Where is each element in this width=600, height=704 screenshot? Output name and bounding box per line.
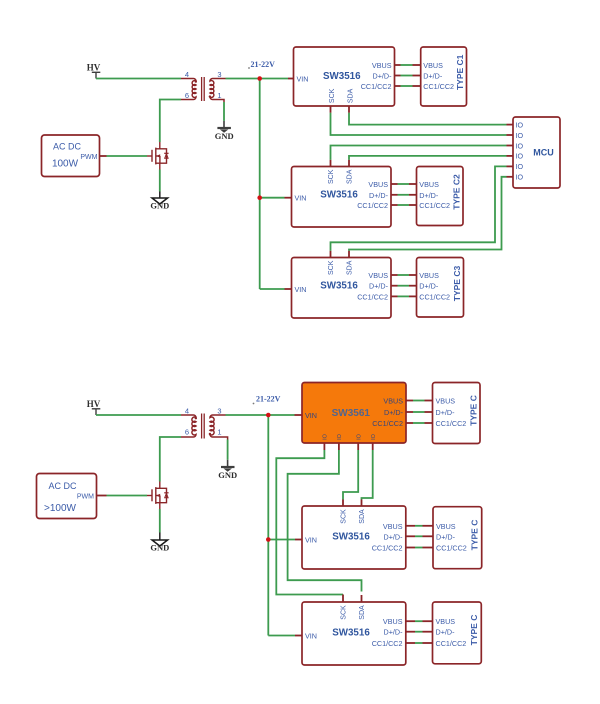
U6 CC1/CC2 pin stub — [406, 422, 413, 424]
IC U4 SW3516 body — [302, 506, 406, 569]
svg-text:IO: IO — [337, 433, 343, 440]
svg-text:HV: HV — [87, 63, 101, 73]
svg-text:D+/D-: D+/D- — [423, 72, 443, 81]
svg-text:SCK: SCK — [341, 509, 348, 524]
svg-text:21-22V: 21-22V — [256, 395, 281, 404]
svg-text:SCK: SCK — [329, 88, 336, 103]
svg-text:CC1/CC2: CC1/CC2 — [372, 419, 403, 428]
transistor Q2 NMOS — [147, 482, 169, 510]
svg-text:VBUS: VBUS — [368, 271, 388, 280]
svg-text:IO: IO — [516, 120, 524, 129]
svg-text:D+/D-: D+/D- — [419, 191, 439, 200]
ground GND below T1 (circuit 1) — [215, 121, 234, 141]
svg-text:D+/D-: D+/D- — [384, 408, 404, 417]
J5 CC1/CC2 pin stub — [423, 642, 433, 644]
svg-text:6: 6 — [185, 428, 189, 437]
svg-text:SW3516: SW3516 — [332, 532, 370, 543]
svg-text:VIN: VIN — [297, 74, 309, 83]
wire 21-22V vertical rail (circuit 1) — [259, 79, 261, 290]
wire T2 pin 1 to GND — [227, 440, 229, 460]
svg-text:VBUS: VBUS — [436, 617, 456, 626]
U2 SDA pin stub — [348, 160, 350, 167]
wire T1 pin 1 to GND — [223, 102, 225, 121]
wire U3 D+/D- to J3 — [398, 285, 410, 287]
ground GND below Q2 (circuit 2) — [150, 533, 169, 553]
U3 D+/D- pin stub — [391, 285, 398, 287]
ground GND below T2 (circuit 2) — [218, 460, 237, 480]
wire U4 VBUS to J4 — [415, 525, 423, 527]
U5 VIN pin stub — [295, 635, 302, 637]
svg-text:TYPE C: TYPE C — [470, 520, 480, 551]
wire U6 IO3 to U4 SCK — [343, 450, 358, 500]
svg-text:IO: IO — [516, 162, 524, 171]
IC U2 SW3516 body — [292, 167, 392, 228]
svg-text:SW3516: SW3516 — [332, 628, 370, 639]
U3 VBUS pin stub — [391, 274, 398, 276]
svg-text:SDA: SDA — [347, 169, 354, 184]
svg-text:VBUS: VBUS — [436, 397, 456, 406]
svg-text:SCK: SCK — [328, 169, 335, 184]
label anchor dot (circuit 2) — [253, 403, 255, 405]
junction on 21-22V rail at T2 output — [266, 413, 271, 418]
svg-text:21-22V: 21-22V — [251, 60, 276, 69]
svg-text:IO: IO — [516, 152, 524, 161]
wire U3 CC1/CC2 to J3 — [398, 295, 410, 297]
svg-text:3: 3 — [217, 70, 221, 79]
svg-text:TYPE C: TYPE C — [469, 395, 479, 426]
wire U6 IO4 to U4 SDA — [362, 450, 373, 500]
MCU IO1 pin stub — [507, 124, 514, 126]
svg-text:VBUS: VBUS — [368, 180, 388, 189]
U6 IO4 pin stub — [372, 443, 374, 450]
wire U6 D+/D- to J6 — [413, 411, 425, 413]
J1 D+/D- pin stub — [413, 75, 421, 77]
U4 VBUS pin stub — [406, 525, 415, 527]
wire U1 SDA to MCU IO1 — [349, 113, 507, 125]
wire U1 SCK to MCU IO2 — [331, 113, 507, 135]
junction on rail at U2 VIN — [257, 195, 262, 200]
wire U1 D+/D- to J1 — [401, 75, 413, 77]
connector J2 TYPE C2 body — [417, 167, 464, 226]
IC U5 SW3516 body — [302, 602, 406, 665]
svg-text:PWM: PWM — [80, 154, 97, 161]
svg-text:VIN: VIN — [295, 194, 307, 203]
ground GND below Q1 (circuit 1) — [150, 192, 169, 211]
wire T2 pin 6 to Q2 drain — [160, 437, 181, 482]
svg-text:VIN: VIN — [295, 285, 307, 294]
wire U6 IO1 to U5 SCK — [276, 450, 343, 595]
svg-text:D+/D-: D+/D- — [384, 628, 404, 637]
transformer T2 — [181, 414, 228, 440]
PS1 PWM pin stub — [100, 155, 107, 157]
svg-text:CC1/CC2: CC1/CC2 — [436, 419, 467, 428]
svg-text:CC1/CC2: CC1/CC2 — [436, 544, 467, 553]
svg-text:PWM: PWM — [77, 494, 94, 501]
wire T1 pin 6 to Q1 drain — [160, 100, 181, 143]
U1 VBUS pin stub — [395, 64, 401, 66]
wire U6 VBUS to J6 — [413, 400, 425, 402]
J2 VBUS pin stub — [409, 183, 417, 185]
wire HV to T1 pin 4 — [96, 78, 181, 80]
wire U5 D+/D- to J5 — [415, 631, 423, 633]
svg-text:D+/D-: D+/D- — [369, 282, 389, 291]
J2 CC1/CC2 pin stub — [409, 204, 417, 206]
svg-text:VBUS: VBUS — [419, 180, 439, 189]
wire U4 CC1/CC2 to J4 — [415, 547, 423, 549]
svg-text:D+/D-: D+/D- — [436, 628, 456, 637]
wire HV to T2 pin 4 — [96, 414, 181, 416]
J5 D+/D- pin stub — [423, 631, 433, 633]
J6 VBUS pin stub — [425, 400, 433, 402]
J6 D+/D- pin stub — [425, 411, 433, 413]
J6 CC1/CC2 pin stub — [425, 422, 433, 424]
wire U5 CC1/CC2 to J5 — [415, 642, 423, 644]
U2 VBUS pin stub — [391, 183, 398, 185]
svg-text:GND: GND — [218, 470, 237, 480]
svg-text:VBUS: VBUS — [383, 522, 403, 531]
svg-text:IO: IO — [323, 433, 329, 440]
U1 SCK pin stub — [330, 106, 332, 113]
power flag HV (circuit 1) — [92, 72, 101, 78]
wire U2 SCK to MCU IO3 — [331, 146, 507, 160]
svg-text:SDA: SDA — [359, 509, 366, 524]
power source PS2 AC DC >100W body — [37, 474, 97, 519]
wire U6 CC1/CC2 to J6 — [413, 422, 425, 424]
U6 IO1 pin stub — [323, 443, 325, 450]
label anchor dot (circuit 1) — [248, 67, 250, 69]
U3 CC1/CC2 pin stub — [391, 295, 398, 297]
power source PS1 AC DC 100W body — [42, 135, 100, 177]
svg-text:IO: IO — [516, 173, 524, 182]
wire Q2 source to GND — [159, 509, 161, 533]
U1 VIN pin stub — [288, 78, 294, 80]
svg-text:1: 1 — [217, 91, 221, 100]
svg-text:VBUS: VBUS — [383, 617, 403, 626]
wire U1 CC1/CC2 to J1 — [401, 85, 413, 87]
J4 VBUS pin stub — [423, 525, 434, 527]
svg-text:GND: GND — [150, 543, 169, 553]
svg-text:100W: 100W — [52, 158, 79, 169]
wire U3 SCK to MCU IO5 — [331, 166, 507, 250]
svg-text:4: 4 — [185, 70, 189, 79]
U3 VIN pin stub — [285, 288, 292, 290]
svg-text:D+/D-: D+/D- — [419, 282, 439, 291]
wire T2 pin 3 to U6 VIN — [226, 414, 295, 416]
J1 VBUS pin stub — [413, 64, 421, 66]
U6 IO3 pin stub — [357, 443, 359, 450]
svg-text:CC1/CC2: CC1/CC2 — [372, 544, 403, 553]
J3 D+/D- pin stub — [409, 285, 417, 287]
svg-text:TYPE C1: TYPE C1 — [455, 54, 465, 90]
wire U5 VBUS to J5 — [415, 620, 423, 622]
J3 VBUS pin stub — [409, 274, 417, 276]
U4 SCK pin stub — [342, 500, 344, 507]
power flag HV (circuit 2) — [92, 409, 101, 415]
U2 SCK pin stub — [330, 160, 332, 167]
U2 VIN pin stub — [285, 197, 292, 199]
U1 CC1/CC2 pin stub — [395, 85, 401, 87]
U6 IO2 pin stub — [338, 443, 340, 450]
svg-text:SW3516: SW3516 — [320, 281, 358, 292]
svg-text:D+/D-: D+/D- — [369, 191, 389, 200]
wire rail to U3 VIN — [260, 288, 285, 290]
J3 CC1/CC2 pin stub — [409, 295, 417, 297]
svg-text:4: 4 — [185, 407, 189, 416]
svg-text:SDA: SDA — [359, 605, 366, 620]
U5 CC1/CC2 pin stub — [406, 642, 415, 644]
svg-text:D+/D-: D+/D- — [373, 72, 393, 81]
svg-text:CC1/CC2: CC1/CC2 — [357, 201, 388, 210]
U4 VIN pin stub — [295, 539, 302, 541]
svg-text:VIN: VIN — [305, 411, 317, 420]
svg-text:SW3516: SW3516 — [320, 190, 358, 201]
connector J5 TYPE C body — [433, 602, 482, 664]
svg-text:SCK: SCK — [341, 605, 348, 620]
svg-text:IO: IO — [371, 433, 377, 440]
svg-text:AC DC: AC DC — [48, 481, 77, 491]
svg-text:D+/D-: D+/D- — [384, 532, 404, 541]
IC MCU body — [513, 117, 560, 188]
svg-text:CC1/CC2: CC1/CC2 — [419, 201, 450, 210]
U6 VBUS pin stub — [406, 400, 413, 402]
wire U2 CC1/CC2 to J2 — [398, 204, 410, 206]
U6 D+/D- pin stub — [406, 411, 413, 413]
wire U6 IO2 to U5 SDA — [288, 450, 362, 592]
svg-text:IO: IO — [356, 433, 362, 440]
PS2 PWM pin stub — [97, 495, 107, 497]
connector J1 TYPE C1 body — [421, 47, 467, 106]
svg-text:D+/D-: D+/D- — [436, 408, 456, 417]
svg-text:HV: HV — [87, 399, 101, 409]
U4 D+/D- pin stub — [406, 535, 415, 537]
svg-text:TYPE C: TYPE C — [469, 615, 479, 646]
U1 SDA pin stub — [348, 106, 350, 113]
IC U1 SW3516 body — [294, 47, 395, 106]
wire rail to U5 VIN — [268, 635, 295, 637]
svg-text:IO: IO — [516, 141, 524, 150]
wire U3 VBUS to J3 — [398, 274, 410, 276]
svg-text:1: 1 — [217, 428, 221, 437]
J1 CC1/CC2 pin stub — [413, 85, 421, 87]
J5 VBUS pin stub — [423, 620, 433, 622]
U4 CC1/CC2 pin stub — [406, 547, 415, 549]
wire 21-22V vertical rail (circuit 2) — [267, 415, 269, 636]
wire PWM to Q1 gate — [107, 155, 148, 157]
MCU IO4 pin stub — [507, 155, 514, 157]
J4 CC1/CC2 pin stub — [423, 547, 434, 549]
wire T1 pin 3 to U1 VIN — [226, 78, 289, 80]
svg-text:SW3561: SW3561 — [332, 408, 371, 419]
svg-text:MCU: MCU — [533, 148, 554, 158]
wire U2 D+/D- to J2 — [398, 194, 410, 196]
svg-text:GND: GND — [215, 131, 234, 141]
svg-text:AC DC: AC DC — [53, 141, 82, 151]
svg-text:VBUS: VBUS — [436, 522, 456, 531]
svg-text:SCK: SCK — [328, 260, 335, 275]
svg-text:>100W: >100W — [44, 503, 77, 514]
IC U3 SW3516 body — [292, 258, 392, 319]
svg-text:VIN: VIN — [305, 536, 317, 545]
svg-text:VBUS: VBUS — [383, 397, 403, 406]
svg-text:VIN: VIN — [305, 632, 317, 641]
connector J4 TYPE C body — [433, 507, 482, 569]
connector J6 TYPE C body — [433, 383, 481, 444]
wire U1 VBUS to J1 — [401, 64, 413, 66]
svg-text:6: 6 — [185, 91, 189, 100]
MCU IO6 pin stub — [507, 176, 514, 178]
wire Q1 source to GND — [159, 170, 161, 192]
svg-text:CC1/CC2: CC1/CC2 — [419, 292, 450, 301]
junction on rail at U4 VIN — [266, 537, 271, 542]
U3 SDA pin stub — [348, 251, 350, 258]
svg-text:CC1/CC2: CC1/CC2 — [436, 639, 467, 648]
svg-text:SW3516: SW3516 — [323, 71, 361, 82]
junction on 21-22V rail at T1 output — [257, 76, 262, 81]
MCU IO3 pin stub — [507, 145, 514, 147]
U5 SDA pin stub — [361, 595, 363, 602]
svg-text:D+/D-: D+/D- — [436, 532, 456, 541]
svg-text:GND: GND — [150, 201, 169, 211]
U3 SCK pin stub — [330, 251, 332, 258]
MCU IO2 pin stub — [507, 134, 514, 136]
connector J3 TYPE C3 body — [417, 258, 464, 318]
svg-text:CC1/CC2: CC1/CC2 — [372, 639, 403, 648]
wire U3 SDA to MCU IO6 — [349, 177, 507, 251]
wire U4 D+/D- to J4 — [415, 535, 423, 537]
wire U2 VBUS to J2 — [398, 183, 410, 185]
svg-text:VBUS: VBUS — [419, 271, 439, 280]
transformer T1 — [181, 77, 226, 102]
U4 SDA pin stub — [361, 500, 363, 507]
U6 VIN pin stub — [295, 414, 303, 416]
svg-text:VBUS: VBUS — [372, 61, 392, 70]
transistor Q1 NMOS — [147, 142, 169, 170]
U2 D+/D- pin stub — [391, 194, 398, 196]
J2 D+/D- pin stub — [409, 194, 417, 196]
svg-text:CC1/CC2: CC1/CC2 — [361, 82, 392, 91]
svg-text:3: 3 — [217, 407, 221, 416]
svg-text:TYPE C3: TYPE C3 — [452, 266, 462, 302]
U5 D+/D- pin stub — [406, 631, 415, 633]
svg-text:VBUS: VBUS — [423, 61, 443, 70]
svg-text:CC1/CC2: CC1/CC2 — [357, 292, 388, 301]
svg-text:SDA: SDA — [347, 260, 354, 275]
IC U6 SW3561 body (orange) — [302, 383, 406, 444]
svg-text:IO: IO — [516, 131, 524, 140]
U5 VBUS pin stub — [406, 620, 415, 622]
svg-text:TYPE C2: TYPE C2 — [452, 174, 462, 210]
svg-text:SDA: SDA — [348, 88, 355, 103]
U2 CC1/CC2 pin stub — [391, 204, 398, 206]
MCU IO5 pin stub — [507, 165, 514, 167]
svg-text:CC1/CC2: CC1/CC2 — [423, 82, 454, 91]
wire rail to U2 VIN — [260, 197, 285, 199]
wire U2 SDA to MCU IO4 — [349, 156, 507, 160]
U1 D+/D- pin stub — [395, 75, 401, 77]
wire PWM to Q2 gate — [107, 495, 148, 497]
U5 SCK pin stub — [342, 595, 344, 603]
wire rail to U4 VIN — [268, 539, 295, 541]
J4 D+/D- pin stub — [423, 535, 434, 537]
